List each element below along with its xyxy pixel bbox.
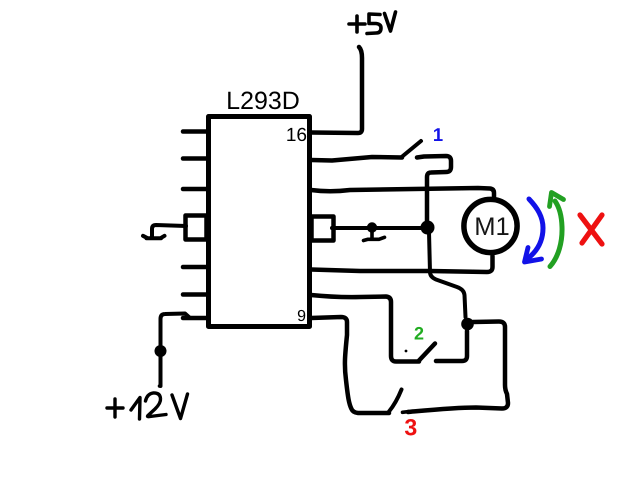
- wire junction A down to junction B (curvy): [429, 232, 466, 317]
- left pin 2: [183, 156, 208, 161]
- left pin 3: [183, 187, 208, 192]
- switch 3 lever: [389, 390, 402, 412]
- wire pin7 (left) to +12V: [161, 314, 209, 387]
- wire pin6 (right) down to switch 2: [311, 295, 419, 362]
- right pin 4 box: [312, 217, 334, 241]
- left pin 6: [183, 292, 208, 297]
- switch 1 contact + wire down: [417, 156, 451, 221]
- left pin 1: [183, 129, 208, 134]
- label 3 (red): [405, 419, 417, 435]
- wire pin2 (right) to switch 1: [311, 157, 402, 161]
- junction dot on +12V wire: [155, 345, 167, 357]
- ground (right, small): [367, 222, 377, 232]
- pin 16 label: [287, 128, 306, 141]
- label 2 (green): [415, 327, 424, 340]
- IC U1 L293D body: [209, 117, 310, 327]
- label +5V: [349, 16, 365, 32]
- speck: [405, 350, 408, 353]
- wire right box to junction: [332, 226, 421, 230]
- wire pin9 down to switch 3: [311, 317, 389, 413]
- switch 2 lever: [419, 344, 435, 361]
- blue rotation arrow: [529, 199, 543, 258]
- ground: [143, 236, 165, 238]
- red X: [580, 215, 602, 244]
- motor M1: [464, 199, 517, 252]
- label +12V: [107, 399, 123, 417]
- wire pin16 to +5V: [311, 47, 362, 133]
- green rotation arrow: [550, 201, 562, 267]
- switch 1 lever: [401, 141, 421, 158]
- wire pin5 (right) to motor bottom: [311, 256, 493, 272]
- junction dot A: [421, 221, 435, 235]
- pin 9 label: [298, 310, 305, 321]
- wire junction B right and down to switch 3 contact: [408, 322, 508, 413]
- left pin 7: [183, 316, 208, 321]
- wire pin3 (right) to motor top: [311, 188, 494, 198]
- label 1 (blue): [434, 128, 443, 141]
- switch 2 contact wire to junction B: [436, 331, 467, 361]
- wire left box pin to ground: [152, 225, 186, 237]
- value label L293D: [228, 92, 298, 110]
- left pin 4 box: [186, 216, 207, 240]
- switch 3 contact tick: [403, 410, 409, 414]
- junction dot B: [461, 318, 474, 331]
- left pin 5: [183, 265, 208, 270]
